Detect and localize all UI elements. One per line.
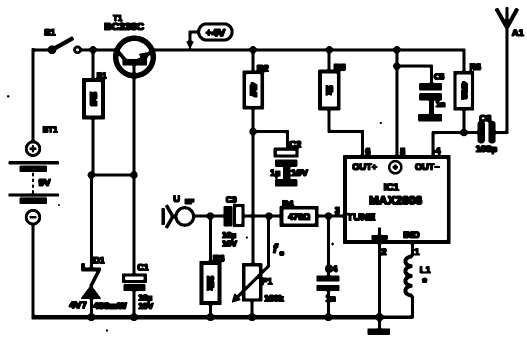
svg-text:C5: C5 (434, 73, 445, 82)
svg-text:100p: 100p (476, 144, 498, 155)
svg-text:MAX2606: MAX2606 (369, 194, 423, 208)
svg-text:400mW: 400mW (93, 301, 126, 312)
svg-text:C6: C6 (479, 113, 491, 124)
svg-text:R6: R6 (470, 62, 482, 72)
svg-text:BT1: BT1 (43, 125, 59, 134)
svg-text:NF: NF (185, 199, 195, 206)
svg-text:L1: L1 (420, 265, 432, 276)
svg-text:A1: A1 (512, 28, 525, 39)
svg-text:C2: C2 (289, 139, 301, 150)
svg-text:R3: R3 (213, 253, 225, 263)
svg-text:OUT−: OUT− (415, 162, 440, 172)
svg-text:4k7: 4k7 (249, 83, 259, 97)
svg-text:10V: 10V (138, 301, 153, 311)
svg-text:*: * (422, 276, 427, 290)
svg-text:5: 5 (400, 147, 406, 158)
svg-text:4V7: 4V7 (69, 300, 87, 311)
svg-text:BC238C: BC238C (104, 21, 145, 33)
svg-text:S1: S1 (44, 27, 56, 38)
svg-text:4: 4 (435, 146, 441, 157)
svg-text:TUNE: TUNE (347, 211, 376, 223)
svg-text:U: U (173, 194, 180, 205)
svg-text:470Ω: 470Ω (460, 82, 467, 100)
svg-text:10V: 10V (291, 168, 309, 179)
svg-text:P1: P1 (262, 277, 273, 287)
svg-text:C4: C4 (325, 264, 338, 275)
svg-text:R5: R5 (334, 63, 347, 74)
svg-text:100k: 100k (264, 294, 285, 304)
svg-text:R4: R4 (282, 199, 294, 209)
svg-text:1µ: 1µ (270, 168, 281, 179)
svg-text:o: o (280, 248, 285, 257)
svg-text:IND: IND (403, 230, 420, 241)
svg-text:IC1: IC1 (384, 183, 400, 194)
svg-text:D1: D1 (93, 256, 105, 266)
svg-text:10V: 10V (222, 238, 237, 248)
svg-text:1: 1 (414, 247, 420, 258)
svg-text:470Ω: 470Ω (288, 212, 310, 222)
svg-text:C1: C1 (137, 262, 149, 272)
svg-text:1n: 1n (325, 294, 336, 304)
svg-text:1n: 1n (436, 99, 446, 109)
svg-text:2: 2 (381, 247, 386, 258)
svg-text:3: 3 (335, 205, 340, 216)
svg-text:+4V: +4V (205, 27, 226, 39)
svg-text:6: 6 (365, 147, 370, 158)
svg-text:9V: 9V (39, 178, 52, 189)
svg-text:OUT+: OUT+ (352, 162, 377, 172)
svg-text:C3: C3 (226, 194, 237, 204)
svg-text:R1: R1 (97, 72, 108, 81)
svg-text:10k: 10k (206, 276, 216, 290)
svg-text:R2: R2 (257, 64, 269, 75)
svg-text:1k5: 1k5 (88, 92, 98, 106)
svg-text:1k: 1k (325, 85, 335, 95)
